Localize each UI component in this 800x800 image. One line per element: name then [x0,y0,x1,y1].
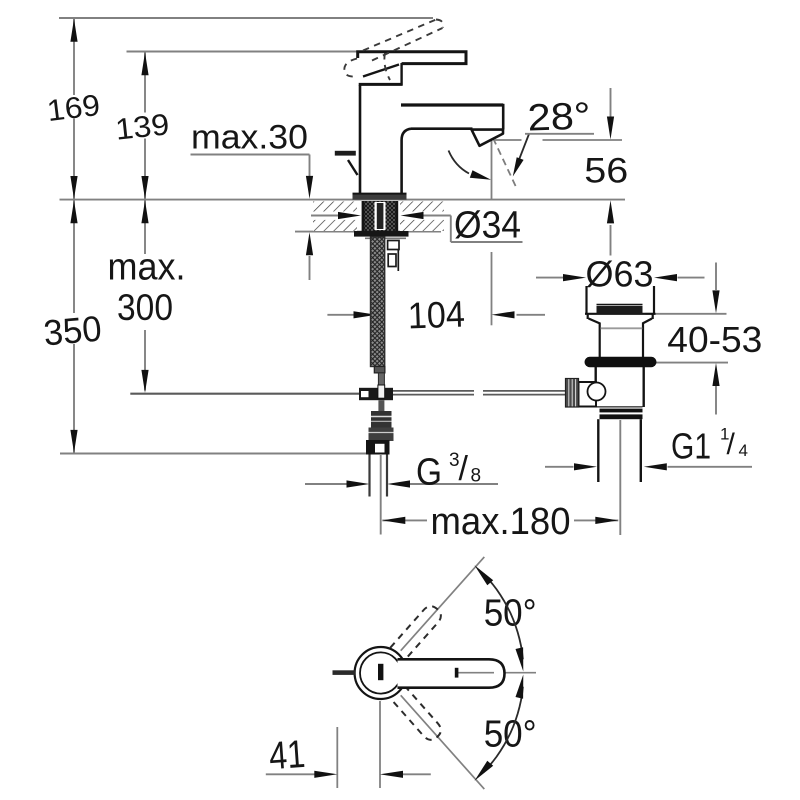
svg-text:104: 104 [407,294,465,337]
arrow 139 top [141,52,148,75]
pivot index mark [378,664,383,680]
arrow Ø63 left [563,274,586,281]
upper 50° extension line [401,557,485,651]
arrow 40-53 bottom [712,363,719,386]
arrow 104 right [492,311,515,318]
arrow 56 top [607,117,614,140]
svg-text:/: / [727,428,736,461]
drain flange seal [585,357,657,367]
svg-text:139: 139 [114,108,171,146]
hose connector stack [371,411,392,428]
taper to neck [589,319,601,324]
clearing band for Ø34 dimension row [308,212,360,220]
dimension 40-53 vertical [646,263,729,415]
dimension 169 vertical [73,18,75,453]
dimension G1 1/4 row [545,466,752,468]
body top [359,83,403,86]
water stream 28 deg line [493,138,517,189]
pop-up rod knob on body [335,151,356,156]
flexible hose (braided) [371,237,385,367]
arrow 169 bottom [70,176,77,199]
ghost lever raised 50° up (dashed) [390,603,444,661]
104 extension vertical (from outlet) [491,138,493,325]
arrow G1 1/4 right [644,463,667,470]
pop-up plug disk [597,304,643,306]
mounting nut [354,231,409,237]
dimension G3/8 row [305,483,498,485]
countertop hatching left of shank [313,201,357,231]
rod pivot joint [359,388,393,400]
lower 50° extension line [401,695,485,789]
svg-text:max.30: max.30 [191,119,308,157]
handle body circle (top view) [355,647,407,699]
ledge drops [587,314,589,319]
arrow max.180 right [595,517,618,524]
tailpipe G1 1/4 [598,419,641,482]
arrow 41 left [314,771,337,778]
lift rod upper [378,373,384,386]
svg-text:4: 4 [739,441,748,460]
arrow 41 right [380,771,403,778]
svg-text:8: 8 [471,466,482,487]
lift rod below joint [378,400,384,411]
svg-text:max.180: max.180 [431,501,571,543]
G3/8 pipe [370,455,388,497]
svg-text:40-53: 40-53 [667,319,762,360]
lever bar [358,52,466,64]
arrow 169 top [70,19,77,42]
arrow max.180 left [382,517,405,524]
ball joint [588,383,606,401]
drain cup sides [585,286,656,358]
dimension 139 vertical [144,52,146,391]
knurled adjusting nut [566,379,579,408]
svg-text:max.: max. [108,247,186,289]
50° arc upper [484,574,523,660]
dimension max.300 arrows [141,200,148,223]
neck sides [599,323,601,358]
neck right edge [400,63,402,86]
svg-text:56: 56 [584,152,628,191]
dimension 56 vertical [610,88,612,256]
arrow Ø34 right [401,212,424,219]
dimension 41 [266,701,431,788]
svg-text:41: 41 [268,733,307,778]
pop-up rod double lines to drain [393,391,566,395]
aerator outlet reference line [495,139,622,141]
faucet body outline [358,52,504,194]
coupling rings [597,406,643,408]
pop-up rod horizontal (left single segment) [130,393,359,395]
extension line lever top (139 ref) [127,51,360,53]
side port boss [579,382,597,407]
svg-text:G: G [416,452,442,494]
dimension 104 row [327,314,545,316]
arrow 40-53 top [712,290,719,313]
spout top [401,103,503,106]
svg-text:350: 350 [42,308,103,354]
ghost handle (raised position) dashes [344,20,443,81]
dimension Ø34 leader + arrows [311,216,523,243]
lift-rod guide bracket [388,241,399,250]
water flow curved arrow [449,151,470,174]
spout underside [411,127,473,130]
pop-up rod tip (top view) [333,670,356,675]
body left edge [359,85,362,194]
lever slot line [458,672,494,674]
neck joint line [601,327,643,329]
dimension max.30 leader [191,155,310,281]
counter top line [60,199,626,201]
drain body [596,367,644,407]
arrow Ø63 right [654,274,677,281]
svg-text:Ø34: Ø34 [454,205,521,247]
arrow max.30 up [306,232,313,255]
dimension max.180 row [381,420,621,535]
knob stem diagonal [348,160,358,175]
extension line top (169 ref) [59,17,433,19]
G3/8 nut [366,440,390,455]
arrow Ø34 left [338,212,361,219]
svg-text:Ø63: Ø63 [586,254,654,295]
arrow 139 bottom [141,176,148,199]
svg-text:G1: G1 [671,426,711,467]
arrow 56 bottom [607,200,614,223]
aerator beak [472,130,504,146]
28° underline [525,133,594,135]
arrow max.30 down [306,176,313,199]
dimension 350 arrows [70,200,77,223]
extension line hose end (350 ref) [60,453,366,455]
svg-text:169: 169 [45,89,102,128]
arrow G3/8 left [347,480,370,487]
faucet base plate [353,195,407,200]
lever (top view) [398,659,505,687]
hose end fitting [374,367,385,373]
lever axis extension line (horizontal) [458,672,536,674]
handle skirt diagonal [363,65,399,77]
countertop hatching right of shank [400,201,444,231]
mounting shank through counter [363,201,397,231]
arrow G1 1/4 left [574,463,597,470]
body right edge with fillet below spout [402,129,411,194]
svg-text:300: 300 [117,287,173,328]
ghost lever lowered 50° down (dashed) [390,686,444,744]
arrow 104 left [354,311,377,318]
spout right end [502,104,505,130]
counter bottom line [295,231,441,233]
svg-text:/: / [459,450,469,488]
cup bottom ledge [585,313,656,315]
28° leader arrow [519,134,530,161]
dimension Ø63 row [536,277,705,279]
arrow G3/8 right [387,480,410,487]
50° arc lower [484,687,523,773]
